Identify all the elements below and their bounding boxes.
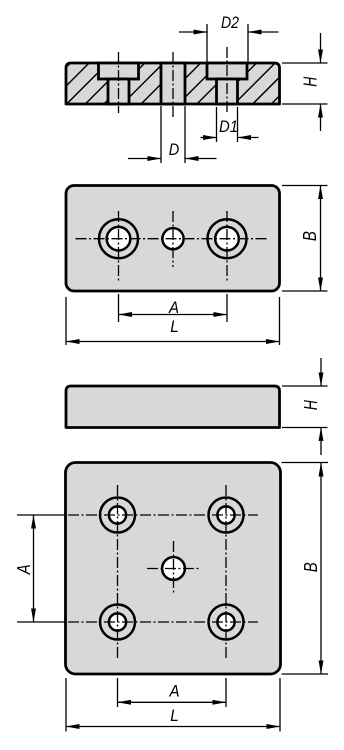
dimension B (view2) — [282, 186, 328, 292]
dimension B (view4) — [282, 463, 329, 675]
hole TR counterbore — [209, 498, 244, 533]
center hole circle — [162, 228, 183, 249]
svg-text:H: H — [301, 76, 321, 87]
vertical centerline center hole — [172, 211, 174, 267]
side view body — [66, 386, 280, 428]
hole TL counterbore — [100, 498, 135, 533]
centerline bottom row ext — [17, 621, 65, 623]
through hole void right — [217, 79, 238, 104]
centerline center hole horizontal — [147, 568, 200, 570]
svg-text:A: A — [14, 564, 34, 575]
centerline center hole vertical — [173, 541, 175, 595]
centerline center hole — [172, 52, 174, 118]
centerline left column — [117, 485, 119, 660]
hole1 counterbore circle — [99, 219, 138, 258]
svg-text:L: L — [170, 707, 179, 725]
through hole void left — [108, 79, 129, 104]
dimension A left (view4) — [14, 515, 34, 622]
svg-text:D: D — [169, 141, 180, 159]
hole1 through circle — [107, 227, 131, 251]
centerline top row — [65, 514, 258, 516]
svg-text:A: A — [169, 683, 180, 701]
svg-text:B: B — [301, 562, 321, 572]
vertical centerline hole2 — [226, 211, 228, 283]
svg-text:D1: D1 — [219, 118, 238, 136]
hole2 through circle — [215, 227, 239, 251]
centerline right column — [225, 485, 227, 660]
dimension D1 — [201, 107, 259, 142]
dimension H (view3) — [282, 358, 328, 455]
centerline hole1 — [118, 52, 120, 113]
svg-text:H: H — [301, 399, 321, 410]
dimension H (section) — [282, 33, 328, 131]
vertical centerline hole1 — [118, 211, 120, 283]
center hole D void — [161, 63, 185, 104]
horizontal centerline — [76, 238, 269, 240]
hole BR through — [217, 613, 234, 630]
centerline top row ext — [17, 514, 65, 516]
dimension L (view2) — [66, 297, 280, 345]
centerline hole2 — [226, 47, 228, 113]
svg-text:L: L — [170, 318, 179, 336]
plate section body (hatched) — [4, 40, 336, 130]
svg-text:B: B — [300, 231, 320, 241]
centerline bottom row — [65, 621, 258, 623]
hole2 counterbore circle — [208, 219, 247, 258]
center hole view4 — [162, 557, 185, 580]
hole TL through — [109, 506, 126, 523]
dimension A bottom (view4) — [118, 678, 227, 707]
plate top view — [66, 186, 280, 292]
counterbore void right — [207, 63, 247, 79]
svg-text:D2: D2 — [221, 14, 239, 32]
square plate — [66, 463, 281, 675]
counterbore void left — [99, 63, 139, 79]
dimension D — [128, 106, 217, 163]
hole BL counterbore — [100, 605, 135, 640]
dimension A (view2) — [119, 294, 228, 322]
hole TR through — [217, 506, 234, 523]
svg-text:A: A — [168, 299, 179, 317]
dimension L (view4) — [66, 678, 280, 732]
dimension D2 — [179, 14, 279, 62]
hole BR counterbore — [209, 605, 244, 640]
hole BL through — [109, 613, 126, 630]
